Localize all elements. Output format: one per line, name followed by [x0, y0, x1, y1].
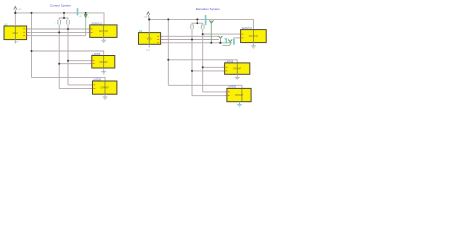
svg-text:+5V: +5V — [17, 9, 21, 11]
junction dots left circuit — [14, 12, 87, 65]
ground under driver box U6 — [237, 105, 242, 107]
branch wire to middle box top (right) — [168, 60, 237, 63]
title: Elevation System — [196, 7, 220, 11]
servo box M2 — [239, 26, 267, 46]
transistor Q1 — [219, 36, 223, 43]
ground under driver box U3 — [103, 97, 108, 99]
diode D2 — [209, 20, 213, 43]
driver box U2 — [90, 52, 115, 72]
branch wire to bottom box top (right) — [168, 85, 242, 88]
transistor Q2 — [228, 39, 232, 45]
vertical wire x31.5 — [31, 13, 33, 78]
svg-text:SERVO1: SERVO1 — [92, 21, 103, 25]
svg-text:OPAMP: OPAMP — [100, 87, 109, 90]
branch wire to bottom box top — [32, 77, 106, 81]
svg-text:d: d — [88, 17, 89, 19]
svg-text:LM358: LM358 — [93, 78, 101, 82]
wire Q1-Q2 emitter — [222, 44, 230, 46]
top rail wire — [15, 13, 104, 25]
capacitor C4 — [198, 27, 199, 29]
wires into bottom box — [59, 85, 92, 89]
wire pin2 bus — [27, 31, 90, 33]
probe flag P1 — [77, 8, 83, 18]
wire pin1 bus — [27, 28, 90, 30]
wire to servo pin2 — [233, 37, 241, 39]
driver box U5 — [223, 59, 250, 77]
ground under servo box M2 — [251, 46, 256, 48]
servo box M1 — [88, 21, 117, 40]
capacitor C3 — [187, 27, 188, 29]
svg-text:MCU: MCU — [147, 38, 153, 41]
svg-text:MCU: MCU — [13, 32, 19, 35]
vertical wire x168.3 — [167, 19, 169, 85]
svg-text:c: c — [187, 27, 188, 29]
wire pin2 bus right — [161, 39, 219, 41]
svg-text:MOTOR: MOTOR — [99, 30, 108, 33]
svg-text:U1: U1 — [4, 22, 8, 26]
wire cap to servo pin1 — [203, 33, 241, 35]
probe flag P2 — [205, 15, 207, 25]
capacitor split node right — [192, 19, 203, 25]
probe bar P3 — [233, 39, 235, 45]
junction dots right circuit — [148, 18, 221, 72]
svg-text:c: c — [55, 23, 56, 25]
capacitor split node — [59, 13, 68, 20]
mcu box U1 — [4, 13, 29, 44]
driver box U6 — [225, 85, 251, 105]
svg-text:c: c — [63, 23, 64, 25]
svg-text:+5V: +5V — [143, 17, 147, 19]
svg-text:LM358: LM358 — [225, 59, 233, 63]
ground under driver box U2 — [101, 72, 106, 74]
wire pin3 bus — [27, 35, 86, 37]
svg-text:U2: U2 — [139, 29, 143, 33]
wires into bottom box right — [192, 92, 227, 96]
svg-text:MOTOR: MOTOR — [249, 35, 258, 38]
diode D1 label — [88, 17, 89, 19]
svg-text:Elevation System: Elevation System — [196, 7, 220, 11]
svg-text:OPAMP: OPAMP — [233, 68, 242, 71]
branch wire to middle box top — [32, 51, 104, 56]
power flag VCC2 — [143, 12, 149, 20]
title: Control System — [50, 4, 72, 8]
LED DL1 — [224, 38, 226, 43]
wires into middle box — [59, 61, 92, 64]
wire pin3 bus right — [161, 42, 232, 44]
ground under driver box U5 — [235, 77, 240, 79]
power flag VCC1 — [14, 6, 22, 12]
ground under servo box M1 — [101, 40, 106, 42]
svg-text:SERVO2: SERVO2 — [242, 26, 253, 30]
svg-text:OPAMP: OPAMP — [99, 61, 108, 64]
top rail wire right — [149, 19, 253, 29]
svg-text:Control System: Control System — [50, 4, 72, 8]
svg-text:c: c — [198, 27, 199, 29]
wires into middle box right — [192, 67, 225, 71]
svg-text:OPAMP: OPAMP — [235, 94, 244, 97]
svg-text:LM358: LM358 — [92, 52, 100, 56]
diode D1 — [84, 13, 88, 36]
svg-text:LM358: LM358 — [228, 85, 236, 89]
wire pin1 bus right — [161, 35, 219, 37]
capacitor C1 — [55, 23, 56, 25]
driver box U3 — [91, 78, 117, 98]
mcu box U4 — [139, 19, 163, 51]
capacitor C2 — [63, 23, 64, 25]
